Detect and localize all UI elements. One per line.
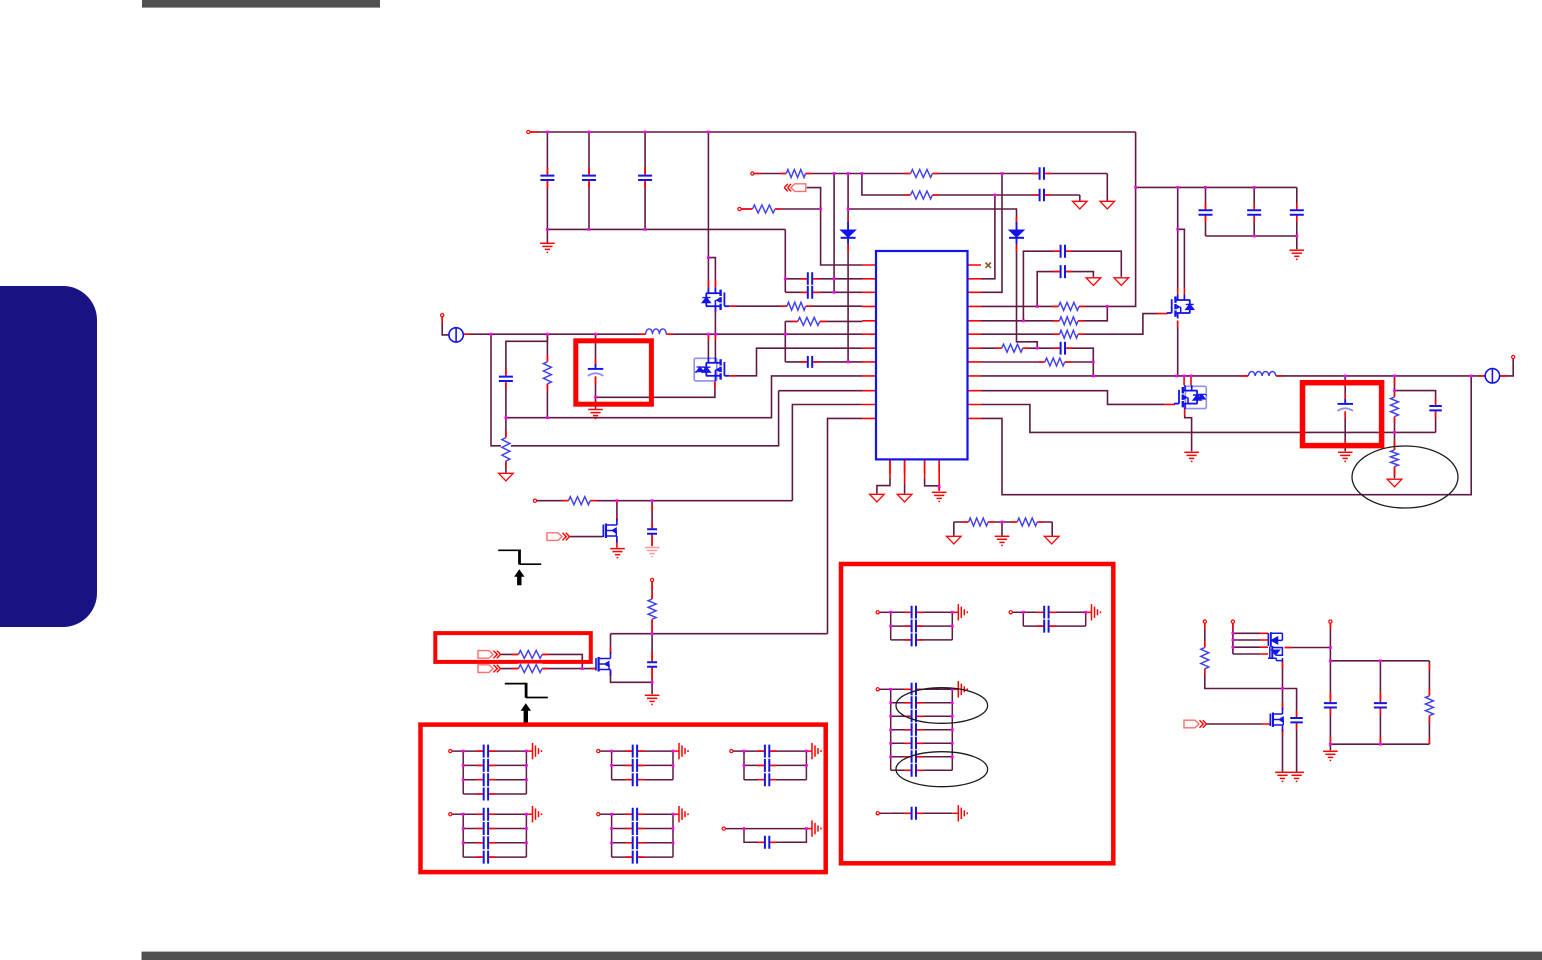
input terminal x=442 [441, 314, 444, 317]
diode D1 x=848 [841, 222, 856, 244]
wire IC row 405 left to row 501 [792, 405, 862, 501]
cap bank G1 terminal [449, 750, 452, 753]
junction rail236 x=1297 [1295, 235, 1298, 238]
cap bank GD terminal [876, 812, 879, 815]
junction rail376 x=1093 [1092, 375, 1095, 378]
cap bank GC junction left [889, 688, 892, 691]
cap bank GC junction left [889, 701, 892, 704]
ground x=1297 [1290, 250, 1305, 259]
cap bank GA cap row 3 [904, 632, 923, 647]
wire RC top branch x=1394 [1394, 376, 1396, 397]
logic step symbol 2 [505, 683, 548, 698]
cap bank GC junction right [951, 715, 954, 718]
cap bank GA terminal [876, 611, 879, 614]
terminal VIN top [527, 130, 530, 133]
junction row173 x=848 [847, 172, 850, 175]
junction row522 x=1002 [1001, 521, 1004, 524]
transistor Q2 low-side [694, 357, 729, 381]
wire Q6 drain stub [610, 634, 612, 654]
wire Q7 bottom lead to Q8 drain [1282, 661, 1284, 711]
cap bank G5 junction left [610, 827, 613, 830]
highlight box 2 (red) [435, 633, 591, 662]
wire R bottom x=1394 [1394, 417, 1396, 433]
port tag Q8 gate [1184, 720, 1207, 728]
ground under C1 [540, 243, 555, 252]
wire IC row 321 [981, 306, 1107, 320]
cap bank GD [880, 812, 959, 814]
wire Qhi drain elbow x=715 [708, 258, 715, 294]
wire IC row 405 to rail y=432 [981, 405, 1436, 433]
resistor R-row501 [562, 496, 597, 506]
output connector J2 [1485, 369, 1499, 383]
cap bank G3 junction right [805, 750, 808, 753]
junction rail229 x=645 [644, 228, 647, 231]
cap bank G2 cap row 1 [625, 744, 644, 759]
junction x=1380 y=744 [1379, 743, 1382, 746]
output terminal [1512, 355, 1515, 358]
cap bank G2 cap row 3 [625, 772, 644, 787]
wire input cap branch x=506 [506, 334, 548, 418]
junction row279 x=834 [833, 277, 836, 280]
wire cap row y=272 to triangle x=1093 [1037, 272, 1093, 307]
cap bank GC junction right [951, 688, 954, 691]
junction x=1394 y=391 [1393, 389, 1396, 392]
capacitor C-row195 x=1042 [1032, 188, 1051, 203]
cap bank GD cap row 1 [904, 806, 923, 821]
cap bank GC cap row 2 [904, 695, 923, 710]
cap bank G5 ground [679, 806, 688, 822]
cap bank G4 junction left [462, 841, 465, 844]
wire VOUT rail y=376 [981, 375, 1485, 377]
diode D2 x=1016 [1009, 222, 1024, 244]
power ground triangle under IC pin1 [870, 494, 885, 502]
cap bank GA cap row 1 [904, 605, 923, 620]
junction x=1282 y=688 [1281, 687, 1284, 690]
ellipse highlight right [1352, 446, 1458, 508]
capacitor C-row348 x=1063 [1053, 341, 1072, 356]
junction rail132 x=547 [546, 131, 549, 134]
cap bank G4 junction right [525, 813, 528, 816]
transistor Q6 [596, 652, 611, 676]
cap bank G4 junction left [462, 827, 465, 830]
cap bank G1 junction left [462, 750, 465, 753]
cap bank GB cap row 2 [1037, 619, 1056, 634]
wire cap row y=251 to triangle x=1121 [1023, 251, 1121, 321]
cap bank G4 junction left [462, 813, 465, 816]
wire IC bottom pin2 drop [904, 484, 906, 494]
inductor L1 input rail [639, 329, 674, 336]
junction rail187 x=1205 [1204, 186, 1207, 189]
wire Q4 drain stubs [1184, 376, 1191, 385]
IC U1 bottom pin stubs [890, 459, 939, 490]
wire Qhi drain drop x=708 [707, 132, 709, 293]
wire ground stub x=596 [595, 397, 597, 409]
wire row y=209 right to diode D2 [848, 209, 1037, 348]
cap bank G2 [600, 751, 679, 780]
junction rail229 x=547 [546, 228, 549, 231]
cap bank GC cap row 5 [904, 736, 923, 751]
cap bank GC junction left [889, 715, 892, 718]
cap bank G4 cap row 3 [476, 835, 495, 850]
wire drop to pwr-gnd triangle x=1107 [1106, 174, 1108, 201]
cap bank GB [1013, 612, 1092, 626]
cap bank G4 cap row 1 [476, 807, 495, 822]
cap bank GC cap row 4 [904, 722, 923, 737]
wire Qlo drain stub x=708 [707, 334, 709, 358]
wire drop to pwr-gnd triangle x=1080 [1079, 195, 1081, 201]
resistor R-row522b [1011, 517, 1044, 527]
junction rail376 x=1471 [1470, 375, 1473, 378]
cap bank G3 junction right [805, 764, 808, 767]
cap bank G2 junction left [610, 764, 613, 767]
resistor R-row321 right [1053, 316, 1085, 326]
resistor x=652 vertical [647, 593, 657, 626]
zener diode inside Q2 box [695, 367, 705, 373]
junction rail376 x=1184 [1183, 375, 1186, 378]
capacitor x=1380 [1373, 696, 1388, 715]
wire jog x=862 y173 to y195 [862, 174, 1080, 196]
junction x=939 y=487 [938, 486, 941, 489]
output capacitor x=1436 [1428, 399, 1443, 418]
junction x=1380 y=661 [1379, 659, 1382, 662]
ground under box5 cap [1338, 452, 1353, 461]
wire vertical x=848 boot [847, 174, 849, 362]
wire input terminal to connector [442, 317, 449, 335]
terminal row501 [533, 499, 536, 502]
pale ground under cap x=652 [645, 548, 660, 557]
wire cap bottom rail y=229 [547, 228, 785, 230]
cap bank GB junction left [1022, 611, 1025, 614]
cap bank GC junction right [951, 742, 954, 745]
wire triangle drop x=1052 [1051, 522, 1053, 536]
wire Q7 pin row y=633 [1233, 632, 1260, 634]
wire divider chain x=506 to triangle [505, 418, 507, 473]
resistor R-row334 right [1053, 329, 1085, 339]
cap bank G6 junction right [805, 827, 808, 830]
junction row306 x=1107 [1106, 305, 1109, 308]
cap bank G3 junction left [743, 750, 746, 753]
capacitor C1 x=547 [539, 168, 555, 187]
wire cap C2 stub x=589 [588, 132, 590, 229]
highlight box 4 (red, middle cap bank) [841, 564, 1113, 863]
cap bank G3 cap row 3 [758, 772, 777, 787]
junction row321 x=1023 [1022, 319, 1025, 322]
wire Q3 drain drop x=1178 [1177, 187, 1179, 287]
ground under Q4 source [1184, 452, 1199, 461]
cap bank G3 [733, 751, 812, 780]
highlight box 5 (red) [1303, 383, 1382, 446]
wire row y=501 net [537, 500, 793, 502]
capacitor C-row272 x=1063 [1053, 264, 1072, 279]
highlight box 3 (red, bottom-left cap bank) [421, 725, 826, 873]
wire Qlo gate to IC row 348 [730, 348, 863, 376]
resistor R-gate-hi row306 [781, 301, 813, 311]
port tag row654 [478, 651, 501, 659]
wire bottom rail y=744 [1330, 743, 1429, 745]
cap bank G4 ground [533, 806, 542, 822]
cap bank GC ground [958, 681, 967, 697]
cap bank GC junction left [889, 742, 892, 745]
cap bank G4 terminal [449, 813, 452, 816]
wire RC cap branch [1395, 391, 1436, 404]
junction rail132 x=589 [588, 131, 591, 134]
black arrow 2 [521, 703, 531, 725]
wire cap chain x=1330 [1329, 648, 1331, 745]
capacitor bank cap x=1297 [1289, 203, 1305, 222]
cap bank GC cap row 6 [904, 749, 923, 764]
wire right bank bottom rail y=236 [1206, 235, 1297, 237]
wire T3 drop x=1330 [1329, 624, 1331, 648]
cap bank GB cap row 1 [1037, 605, 1056, 620]
resistor R-row173b [904, 169, 939, 179]
power ground triangle x=1107 [1100, 201, 1115, 209]
black arrow 1 [514, 569, 524, 585]
cap bank G3 junction left [743, 764, 746, 767]
power ground triangle x=506 [499, 473, 514, 481]
output resistor x=1394 upper [1390, 391, 1400, 424]
cap bank GA ground [958, 604, 967, 620]
cap bank GA [880, 612, 959, 640]
transistor Q3 high-side right [1167, 295, 1194, 319]
wire row y=654 to gate elbow [500, 654, 583, 668]
junction x=1330 y=647 [1329, 646, 1332, 649]
capacitor C-row362 x=810 [801, 355, 820, 369]
ground under IC pin4 [932, 492, 947, 501]
wire row y=669 to Q6 gate [500, 668, 596, 670]
cap bank GC cap row 3 [904, 709, 923, 724]
terminal x=652 y=580 [651, 578, 654, 581]
cap bank G5 cap row 4 [625, 850, 644, 865]
dual MOSFET Q7 [1268, 632, 1283, 661]
cap bank GA cap row 2 [904, 619, 923, 634]
power ground triangle x=954 [947, 536, 962, 544]
junction rail187 x=1178 [1176, 186, 1179, 189]
cap bank G5 junction right [672, 827, 675, 830]
transistor Q1 high-side [702, 288, 729, 312]
junction row362 x=848 [847, 361, 850, 364]
junction x=1178 y=229 [1176, 228, 1179, 231]
junction rail229 x=589 [588, 228, 591, 231]
wire RC cap bottom [1435, 411, 1437, 433]
wire row y=292 cap to IC pin [785, 291, 862, 293]
cap bank GA junction right [951, 625, 954, 628]
junction rail334 x=708 [707, 333, 710, 336]
capacitor bank cap x=1254 [1246, 203, 1262, 222]
wire IC row 362 right [981, 361, 1093, 363]
wire ground stub x=1330 [1329, 744, 1331, 750]
cap bank G5 junction left [610, 813, 613, 816]
cap bank G2 junction left [610, 750, 613, 753]
junction rail334 x=491 [490, 333, 493, 336]
wire cap C1 stub x=547 [546, 132, 548, 229]
input capacitor x=506 [498, 369, 514, 388]
junction rail376 x=1394 [1393, 375, 1396, 378]
wire Q5 gate row [570, 536, 604, 538]
wire cap x=652 upper chain [651, 501, 653, 547]
wire row y=279 cap to IC pin [785, 278, 862, 280]
junction rail187 x=1136 [1134, 186, 1137, 189]
wire Q3 source x=1178 [1177, 321, 1179, 376]
wire resistor chain x=1429 [1428, 661, 1430, 744]
resistor R-row669 [512, 664, 549, 674]
cap bank GB junction right [1084, 611, 1087, 614]
wire R2 to triangle x=1394 [1394, 432, 1396, 478]
capacitor x=1296 chain [1289, 711, 1304, 730]
capacitor C-row251 x=1063 [1053, 244, 1072, 259]
input connector J1 [449, 328, 463, 342]
capacitor C2 x=589 [581, 168, 597, 187]
cap bank G5 junction right [672, 841, 675, 844]
cap bank G5 junction left [610, 841, 613, 844]
ground under box1 cap [588, 410, 603, 419]
capacitor C-row279 x=810 [801, 271, 820, 286]
cap bank G2 terminal [597, 750, 600, 753]
red lead stubs misc [442, 132, 1507, 744]
cap bank GC cap row 1 [904, 682, 923, 697]
port tag EN (left arrow) [784, 184, 806, 192]
ground x=1296 [1289, 772, 1304, 781]
wire row y=321 resistor to IC [785, 320, 862, 322]
junction rail187 x=1254 [1253, 186, 1256, 189]
cap bank G5 cap row 2 [625, 821, 644, 836]
junction rail418 x=506 [505, 416, 508, 419]
cap bank G1 [452, 751, 532, 794]
power ground triangle x=1080 [1073, 201, 1088, 209]
polarized capacitor in box1 [587, 359, 605, 384]
cap bank G2 cap row 2 [625, 758, 644, 773]
power ground triangle under IC pin2 [897, 494, 912, 502]
cap bank GC terminal [876, 688, 879, 691]
junction rail132 x=708 [707, 131, 710, 134]
junction rail376 x=1191 [1190, 375, 1193, 378]
junction rail418 x=547 [546, 416, 549, 419]
cap bank G1 cap row 1 [476, 744, 495, 759]
cap bank GC junction right [951, 701, 954, 704]
wire VIN rail y=334 [464, 333, 863, 335]
power ground triangle x=1093 [1086, 278, 1101, 286]
junction row173 x=834 [833, 172, 836, 175]
no-connect X on IC pin row 265 [986, 263, 991, 268]
junction x=582 y=669 [581, 667, 584, 670]
wire ground stub x=652 [651, 682, 653, 694]
cap bank GA junction left [889, 611, 892, 614]
junction rail334 x=596 [594, 333, 597, 336]
highlight box 1 (red) [576, 341, 652, 404]
cap bank G4 [452, 814, 532, 857]
cap bank GC junction right [951, 755, 954, 758]
wire Q7 pin row y=648 [1233, 646, 1260, 648]
wire IC row 334 to Q3 gate [981, 314, 1158, 335]
resistor R-row654 [512, 649, 549, 659]
power ground triangle x=1052 [1044, 536, 1059, 544]
wire vertical x=785 caps to IC [784, 229, 786, 292]
junction row209 x=821 [819, 208, 822, 211]
junction x=1394 y=432 [1393, 431, 1396, 434]
resistor R-row195 [904, 190, 939, 200]
junction row173 x=862 [861, 172, 864, 175]
cap bank G5 cap row 1 [625, 807, 644, 822]
wire IC row 391 to Q4 gate [981, 391, 1164, 405]
cap bank G3 cap row 1 [758, 744, 777, 759]
wire Qhi gate row y=306 [730, 305, 863, 307]
cap bank G5 cap row 3 [625, 835, 644, 850]
junction x=708 y=258 [707, 256, 710, 259]
terminal T1 [1203, 620, 1206, 623]
footer bar [142, 952, 1542, 960]
wire row y=362 cap to IC [785, 361, 862, 363]
ground x=1002 row522 [995, 536, 1010, 545]
power ground triangle x=1121 [1114, 278, 1129, 286]
ellipse highlight in box4 upper [896, 688, 988, 724]
wire ground stub x=1297 [1296, 236, 1298, 249]
junction row501 x=652 [651, 499, 654, 502]
wire row y=209 left segment [741, 208, 821, 210]
cap bank G6 junction left [743, 827, 746, 830]
wire ground drop x=1002 [1001, 522, 1003, 536]
cap bank G2 junction right [672, 764, 675, 767]
capacitor x=652 upper [646, 522, 658, 541]
IC U1 left pin stubs [862, 265, 876, 418]
wire Q5 source stub [616, 539, 618, 548]
junction row348 x=1037 [1036, 347, 1039, 350]
cap bank GA junction right [951, 611, 954, 614]
junction row279 x=785 [784, 277, 787, 280]
wire rail y=187 right bank [1136, 186, 1297, 188]
terminal T3 [1329, 620, 1332, 623]
wire cap stub x=1297 [1296, 187, 1298, 236]
resistor x=1429 vertical [1424, 689, 1434, 722]
IC U1 body [876, 251, 968, 459]
wire vertical x=834 [833, 174, 835, 293]
ground x=1330 [1323, 751, 1338, 760]
resistor R-row321 [791, 316, 826, 326]
resistor R-row209 [746, 204, 782, 214]
divider resistor x=506 [501, 431, 511, 467]
cap bank GC junction right [951, 728, 954, 731]
junction x=1233 y=648 [1232, 646, 1235, 649]
zener diode inside Q4 box [1197, 394, 1207, 400]
capacitor x=1330 [1323, 696, 1338, 715]
left navy sidebar tab [0, 286, 97, 627]
wire row y=173 net [754, 173, 1108, 175]
wire IC bottom pin1 elbow [877, 478, 890, 494]
ellipse highlight in box4 lower [896, 752, 988, 787]
wire input resistor x=547 [546, 334, 548, 418]
junction rail334 x=715 [714, 333, 717, 336]
cap bank G1 cap row 3 [476, 772, 495, 787]
junction row195 x=995 [994, 194, 997, 197]
wire Qhi source to rail [714, 306, 716, 358]
wire T2 drop x=1233 [1232, 624, 1234, 655]
junction row292 x=834 [833, 291, 836, 294]
cap bank G4 junction right [525, 841, 528, 844]
capacitor x=652 lower [646, 655, 658, 674]
capacitor C3 x=645 [637, 168, 653, 187]
wire output connector to terminal [1500, 359, 1514, 376]
cap bank G4 cap row 4 [476, 850, 495, 865]
junction rail376 x=1177 [1175, 375, 1178, 378]
junction rail634 x=652 [651, 632, 654, 635]
junction rail376 x=1345 [1344, 375, 1347, 378]
ground under cap x=652 lower [645, 695, 660, 704]
wire Q8 gate row [1206, 723, 1262, 725]
cap bank G6 [726, 829, 813, 843]
cap bank G3 ground [812, 743, 821, 759]
cap bank G2 junction right [672, 750, 675, 753]
cap bank G5 junction right [672, 813, 675, 816]
wire Q7 drain row y=647 [1285, 647, 1331, 649]
cap bank GC [880, 689, 959, 770]
